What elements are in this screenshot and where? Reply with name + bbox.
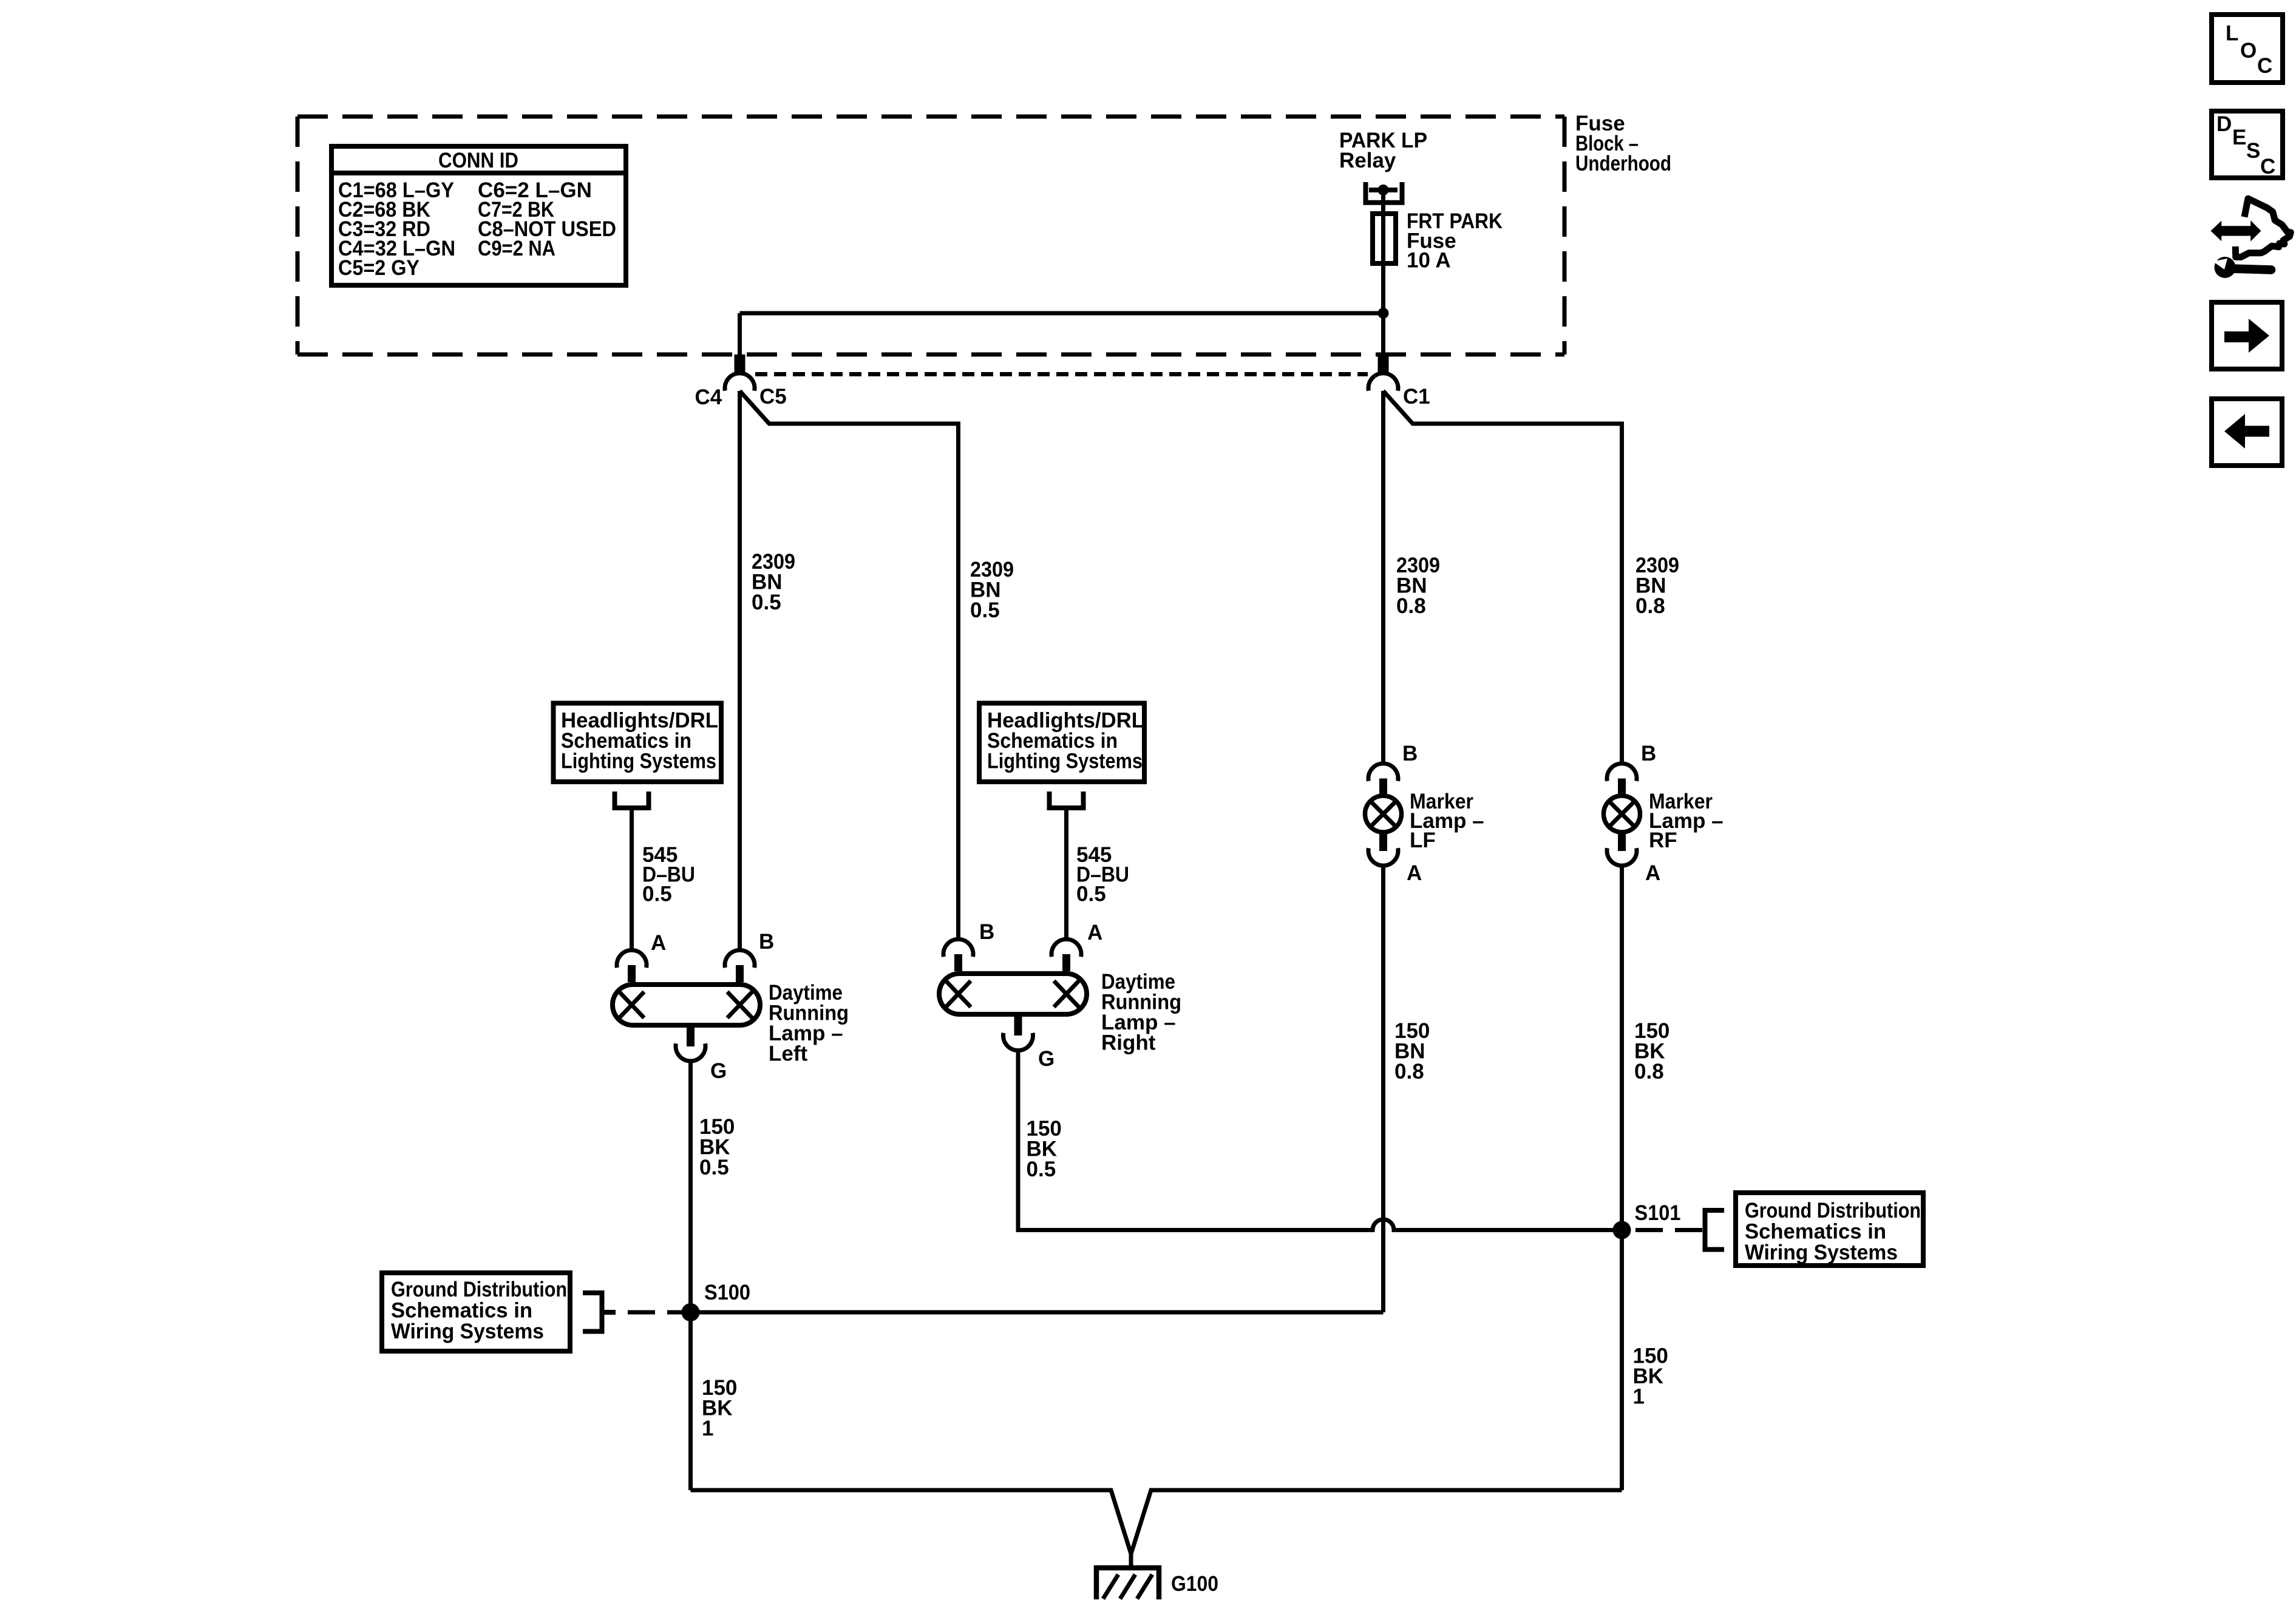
- svg-text:RF: RF: [1649, 829, 1677, 852]
- svg-text:C: C: [2260, 155, 2275, 178]
- svg-text:Lighting Systems: Lighting Systems: [561, 750, 716, 773]
- svg-text:Wiring Systems: Wiring Systems: [1745, 1241, 1898, 1264]
- svg-text:G: G: [710, 1059, 727, 1083]
- svg-text:0.8: 0.8: [1634, 1060, 1664, 1083]
- svg-text:C4: C4: [695, 385, 722, 409]
- svg-text:C5: C5: [759, 385, 787, 408]
- svg-text:S: S: [2246, 139, 2260, 163]
- svg-text:Underhood: Underhood: [1575, 152, 1671, 175]
- svg-text:0.5: 0.5: [1076, 883, 1106, 906]
- svg-text:G: G: [1038, 1047, 1055, 1071]
- svg-text:0.5: 0.5: [1027, 1158, 1056, 1181]
- svg-text:CONN ID: CONN ID: [438, 149, 518, 172]
- svg-text:0.5: 0.5: [970, 598, 1000, 622]
- svg-text:Wiring Systems: Wiring Systems: [391, 1320, 544, 1343]
- svg-text:C5=2 GY: C5=2 GY: [338, 256, 419, 280]
- svg-text:Left: Left: [769, 1042, 808, 1066]
- svg-text:C1: C1: [1403, 385, 1430, 408]
- svg-text:Schematics in: Schematics in: [1745, 1220, 1886, 1244]
- svg-text:A: A: [1645, 861, 1660, 885]
- svg-text:0.5: 0.5: [699, 1156, 729, 1179]
- svg-text:Right: Right: [1101, 1031, 1156, 1055]
- svg-text:C9=2 NA: C9=2 NA: [478, 237, 555, 260]
- svg-text:C: C: [2257, 54, 2272, 78]
- svg-text:D: D: [2216, 112, 2232, 136]
- svg-text:Schematics in: Schematics in: [391, 1299, 532, 1323]
- svg-text:S100: S100: [704, 1281, 750, 1304]
- svg-text:A: A: [1407, 861, 1422, 885]
- svg-text:L: L: [2226, 22, 2238, 46]
- svg-text:G100: G100: [1171, 1572, 1218, 1596]
- svg-text:Lighting Systems: Lighting Systems: [987, 750, 1143, 773]
- svg-text:0.8: 0.8: [1394, 1060, 1424, 1083]
- svg-text:1: 1: [702, 1417, 713, 1440]
- svg-text:E: E: [2232, 126, 2246, 149]
- svg-text:A: A: [1087, 921, 1102, 944]
- svg-text:0.8: 0.8: [1396, 594, 1426, 618]
- svg-text:A: A: [651, 931, 666, 955]
- svg-text:0.8: 0.8: [1635, 594, 1665, 618]
- svg-text:B: B: [759, 930, 774, 954]
- svg-text:Relay: Relay: [1339, 149, 1396, 172]
- svg-text:Ground Distribution: Ground Distribution: [1745, 1199, 1921, 1222]
- svg-text:0.5: 0.5: [752, 591, 781, 614]
- svg-text:10 A: 10 A: [1407, 249, 1451, 273]
- svg-text:B: B: [1641, 742, 1656, 765]
- svg-text:O: O: [2240, 39, 2257, 63]
- svg-text:1: 1: [1633, 1385, 1645, 1409]
- svg-text:S101: S101: [1635, 1201, 1681, 1225]
- svg-text:0.5: 0.5: [642, 883, 672, 906]
- svg-text:Ground Distribution: Ground Distribution: [391, 1278, 567, 1301]
- svg-text:B: B: [1402, 742, 1418, 765]
- svg-text:LF: LF: [1410, 829, 1436, 852]
- svg-text:B: B: [979, 920, 994, 944]
